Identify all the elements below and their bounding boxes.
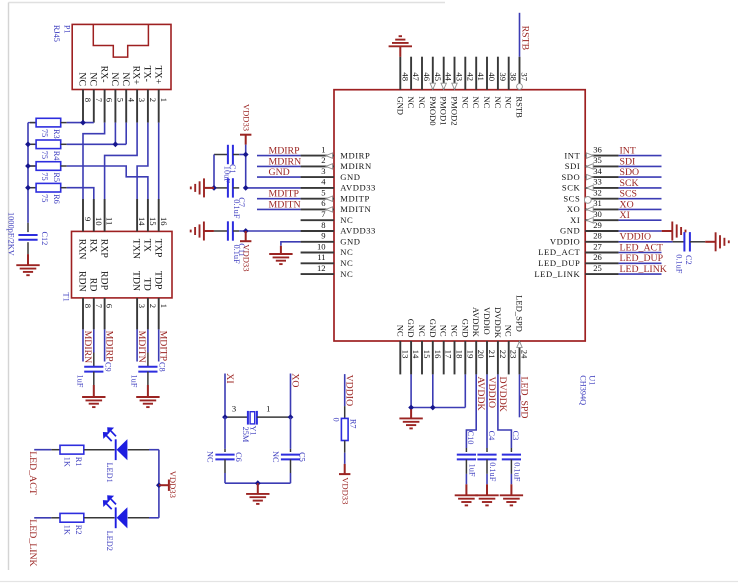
U1 pin 32 (SCS) xyxy=(563,188,618,204)
svg-text:AVDDK: AVDDK xyxy=(471,307,481,338)
svg-text:NC: NC xyxy=(340,258,353,268)
U1 pin 16 (GND) xyxy=(428,319,443,375)
ground right of pin29 xyxy=(662,222,686,241)
svg-text:MDITP: MDITP xyxy=(340,193,370,203)
U1 pin 38 (NC) xyxy=(504,57,519,109)
svg-text:25M: 25M xyxy=(241,427,250,443)
svg-text:NC: NC xyxy=(504,96,514,108)
svg-text:RDP: RDP xyxy=(98,271,109,291)
svg-text:9: 9 xyxy=(83,217,93,221)
svg-text:RDN: RDN xyxy=(77,271,88,292)
svg-text:SCK: SCK xyxy=(562,183,581,193)
svg-text:NC: NC xyxy=(340,247,353,257)
U1 pin 47 (NC) xyxy=(406,57,421,109)
svg-text:6: 6 xyxy=(321,198,326,208)
svg-text:MDITP: MDITP xyxy=(269,189,300,200)
T1 pin 6 xyxy=(105,298,115,330)
wire/net label MDITP (chip left) xyxy=(257,189,301,200)
svg-text:MDIRN: MDIRN xyxy=(82,331,93,364)
wire/net label MDITN xyxy=(136,329,147,362)
svg-text:LED2: LED2 xyxy=(105,531,114,551)
svg-text:NC: NC xyxy=(450,325,460,337)
svg-text:5: 5 xyxy=(321,188,325,198)
svg-text:NC: NC xyxy=(271,451,280,463)
svg-text:RXN: RXN xyxy=(77,239,88,260)
junction: rail/pin16 xyxy=(430,405,436,411)
svg-text:XI: XI xyxy=(570,215,580,225)
ground below crystal xyxy=(246,483,269,504)
svg-text:LED_ACT: LED_ACT xyxy=(620,242,664,253)
svg-text:C4: C4 xyxy=(487,431,496,442)
svg-text:AVDD33: AVDD33 xyxy=(340,226,376,236)
svg-text:12: 12 xyxy=(317,263,326,273)
P1 pin 2 xyxy=(148,90,158,123)
svg-text:NC: NC xyxy=(482,96,492,108)
svg-text:XO: XO xyxy=(620,199,634,210)
U1 pin 21 (VDDIO) xyxy=(482,307,497,374)
svg-text:MDITN: MDITN xyxy=(136,331,147,363)
svg-text:AVDDK: AVDDK xyxy=(475,377,486,411)
wire/net label LED_DUP (chip right) xyxy=(619,253,664,264)
svg-text:SCK: SCK xyxy=(620,178,639,189)
svg-text:GND: GND xyxy=(460,319,470,338)
svg-text:36: 36 xyxy=(593,144,602,154)
svg-text:8: 8 xyxy=(83,98,93,102)
svg-text:C5: C5 xyxy=(297,452,306,462)
svg-text:R5: R5 xyxy=(52,172,61,182)
U1 pin 18 (NC) xyxy=(450,325,465,375)
pin direction arrows (top pins 45,44,43) xyxy=(430,83,457,89)
svg-text:40: 40 xyxy=(487,72,497,81)
svg-text:AVDD33: AVDD33 xyxy=(340,183,376,193)
svg-text:26: 26 xyxy=(593,252,602,262)
net label LED_LINK xyxy=(27,518,51,567)
svg-text:VDDIO: VDDIO xyxy=(486,377,497,409)
svg-text:NC: NC xyxy=(460,96,470,108)
svg-text:XI: XI xyxy=(620,210,630,221)
svg-text:GND: GND xyxy=(395,96,405,115)
U1 pin 20 (AVDDK) xyxy=(471,307,486,374)
wire/net label SCS (chip right) xyxy=(619,189,662,200)
svg-text:13: 13 xyxy=(400,350,410,359)
svg-text:14: 14 xyxy=(411,350,421,359)
svg-text:31: 31 xyxy=(593,198,602,208)
wire/net label VDDIO (pin21) xyxy=(486,374,497,448)
resistor R7 0 xyxy=(332,406,358,464)
U1 pin 48 (GND) xyxy=(395,57,410,115)
U1 pin 44 (PMOD1) xyxy=(439,57,454,126)
capacitor C11 0.1uF xyxy=(214,221,301,264)
svg-text:44: 44 xyxy=(444,72,454,81)
P1 pin 5 xyxy=(115,90,125,123)
U1 pin 8 (AVDD33) xyxy=(301,220,376,236)
P1 pin 4 xyxy=(126,90,136,123)
svg-text:MDIRP: MDIRP xyxy=(340,150,370,160)
svg-text:NC: NC xyxy=(439,325,449,337)
T1 pin 11 xyxy=(105,199,115,231)
svg-text:TX: TX xyxy=(142,239,153,252)
svg-text:MDIRP: MDIRP xyxy=(269,146,301,157)
junction: XO/crystal xyxy=(288,414,294,420)
svg-text:18: 18 xyxy=(455,350,465,359)
junction: P1 pin8 / R3 xyxy=(80,120,86,126)
svg-text:DVDDK: DVDDK xyxy=(497,377,508,412)
svg-text:1: 1 xyxy=(159,98,169,102)
svg-text:C10: C10 xyxy=(466,431,475,445)
U1 pin 24 (LED_SPD) xyxy=(515,295,530,374)
junction: C7/rail xyxy=(243,185,249,191)
svg-text:INT: INT xyxy=(564,150,580,160)
svg-text:LED_LINK: LED_LINK xyxy=(620,264,667,275)
svg-text:PMOD1: PMOD1 xyxy=(439,96,449,125)
svg-text:27: 27 xyxy=(593,241,602,251)
capacitor C2 0.1uF xyxy=(673,232,706,274)
U1 pin 9 (GND) xyxy=(301,231,361,247)
junction: rail/pin14 xyxy=(408,405,414,411)
svg-text:R3: R3 xyxy=(52,129,61,139)
svg-text:XI: XI xyxy=(224,373,235,383)
IC U1 CH394Q body xyxy=(334,90,596,405)
U1 pin 37 (RSTB) xyxy=(515,57,530,118)
svg-text:XO: XO xyxy=(290,373,301,387)
U1 pin 10 (NC) xyxy=(301,241,354,257)
wire: RX- P1.6 to T1.9 xyxy=(83,123,105,199)
svg-text:0.1uF: 0.1uF xyxy=(488,462,497,482)
svg-text:GND: GND xyxy=(428,319,438,338)
svg-text:11: 11 xyxy=(105,217,115,225)
U1 pin 11 (NC) xyxy=(301,252,354,268)
wire/net label VDDIO (pin28) xyxy=(619,232,673,243)
svg-text:PMOD2: PMOD2 xyxy=(450,96,460,125)
capacitor C5 NC xyxy=(271,417,306,483)
svg-text:VDDIO: VDDIO xyxy=(550,237,580,247)
svg-text:28: 28 xyxy=(593,231,602,241)
svg-text:SDO: SDO xyxy=(561,172,580,182)
capacitor C4 0.1uF xyxy=(477,431,497,485)
U1 pin 22 (DVDDK) xyxy=(493,307,508,374)
P1 pin 3 xyxy=(137,90,147,123)
svg-text:TDP: TDP xyxy=(152,271,163,290)
ground left of C11 xyxy=(191,222,214,241)
wire: LED common to VDD33 xyxy=(158,450,160,518)
svg-text:8: 8 xyxy=(83,304,93,308)
svg-text:15: 15 xyxy=(148,217,158,226)
svg-text:30: 30 xyxy=(593,209,602,219)
capacitor C6 NC xyxy=(206,417,244,483)
U1 pin 12 (NC) xyxy=(301,263,354,279)
svg-text:LED_ACT: LED_ACT xyxy=(27,451,38,495)
svg-text:TXP: TXP xyxy=(152,239,163,258)
svg-text:2: 2 xyxy=(321,155,325,165)
T1 pin 16 xyxy=(159,199,169,231)
svg-text:RXP: RXP xyxy=(98,239,109,259)
wire/net label LED_SPD (pin24) xyxy=(519,374,530,418)
svg-text:LED_DUP: LED_DUP xyxy=(620,253,664,264)
svg-text:R2: R2 xyxy=(74,525,83,535)
wire/net label MDIRP (chip left) xyxy=(257,146,301,157)
wire: R6 to T1 pin10 (RX ct) xyxy=(67,188,94,199)
svg-text:14: 14 xyxy=(137,217,147,226)
svg-text:1: 1 xyxy=(159,304,169,308)
svg-text:SDI: SDI xyxy=(565,161,581,171)
wire: left termination rail xyxy=(27,123,29,223)
wire: R3 to P1 pins 7+8 xyxy=(67,122,94,124)
T1 pin 1 xyxy=(159,298,169,330)
svg-text:C2: C2 xyxy=(684,255,693,265)
svg-text:1K: 1K xyxy=(63,457,72,467)
svg-text:SCS: SCS xyxy=(620,189,637,200)
svg-text:MDIRN: MDIRN xyxy=(340,161,372,171)
svg-text:1000pF/2KV: 1000pF/2KV xyxy=(7,212,16,256)
ground below C8 xyxy=(136,385,159,407)
wire: R5 to T1 pin15 (TX ct) xyxy=(67,166,148,199)
svg-text:75: 75 xyxy=(40,172,49,180)
wire/net label SDO (chip right) xyxy=(619,167,662,178)
svg-text:22: 22 xyxy=(498,350,508,359)
U1 pin 6 (MDITN) xyxy=(301,198,372,214)
net label LED_ACT xyxy=(27,450,51,495)
capacitor C1 10uF xyxy=(214,145,246,183)
P1 pin 8 xyxy=(83,90,93,123)
svg-text:5: 5 xyxy=(116,98,126,102)
svg-text:1: 1 xyxy=(321,144,325,154)
U1 pin 45 (PMOD0) xyxy=(428,57,443,126)
svg-text:GND: GND xyxy=(560,226,580,236)
svg-text:35: 35 xyxy=(593,155,602,165)
P1 pin 6 xyxy=(105,90,115,123)
svg-text:RD: RD xyxy=(88,278,99,292)
svg-text:46: 46 xyxy=(422,72,432,81)
wire: TX- P1.2 to T1.14 xyxy=(137,123,148,199)
wire: C1 left rail xyxy=(213,155,215,188)
svg-text:TXN: TXN xyxy=(131,239,142,259)
resistor R2 1K xyxy=(51,513,114,535)
wire/net label XI xyxy=(224,373,235,417)
wire: rail to chip pin4 AVDD33 xyxy=(246,187,301,189)
svg-text:RJ45: RJ45 xyxy=(52,25,61,42)
power port VDD33 (R7) xyxy=(339,464,351,505)
svg-text:VDD33: VDD33 xyxy=(341,477,351,504)
capacitor C9 1uF xyxy=(76,329,113,387)
svg-text:SCS: SCS xyxy=(563,193,580,203)
svg-text:2: 2 xyxy=(148,304,158,308)
U1 pin 42 (NC) xyxy=(460,57,475,109)
wire/net label SCK (chip right) xyxy=(619,178,662,189)
junction: rail/R4 xyxy=(25,141,31,147)
svg-text:VDDIO: VDDIO xyxy=(620,232,652,243)
svg-text:VDD33: VDD33 xyxy=(168,471,178,498)
svg-text:GND: GND xyxy=(340,237,360,247)
svg-text:RX: RX xyxy=(88,239,99,253)
ground below C4 xyxy=(475,484,498,505)
svg-text:19: 19 xyxy=(465,350,475,359)
junction: XI/crystal xyxy=(222,414,228,420)
wire/net label XO (chip right) xyxy=(619,199,662,210)
U1 pin 3 (GND) xyxy=(301,166,361,182)
T1 pin 8 xyxy=(83,298,93,330)
ground above chip pin48 xyxy=(389,36,412,57)
T1 pin 10 xyxy=(94,199,104,231)
LED LED1 xyxy=(103,427,159,483)
wire/net label DVDDK (pin22) xyxy=(497,374,512,448)
U1 pin 29 (GND) xyxy=(560,220,619,236)
svg-text:TDN: TDN xyxy=(131,271,142,291)
transformer T1 xyxy=(62,231,173,301)
svg-text:C12: C12 xyxy=(40,232,49,246)
ground left of C7 xyxy=(191,178,214,197)
U1 pin 30 (XI) xyxy=(570,209,618,225)
svg-text:75: 75 xyxy=(40,129,49,137)
svg-text:45: 45 xyxy=(433,72,443,81)
svg-text:37: 37 xyxy=(520,72,530,81)
svg-text:NC: NC xyxy=(504,325,514,337)
svg-text:4: 4 xyxy=(126,98,136,103)
svg-text:GND: GND xyxy=(340,172,360,182)
U1 pin 13 (NC) xyxy=(395,325,410,375)
svg-text:0.1uF: 0.1uF xyxy=(232,245,241,265)
svg-text:NC: NC xyxy=(88,72,99,86)
svg-text:TD: TD xyxy=(142,278,153,291)
svg-text:9: 9 xyxy=(321,231,325,241)
svg-text:P1: P1 xyxy=(63,25,72,34)
power port VDD33 (C1) xyxy=(240,104,252,145)
svg-text:RX-: RX- xyxy=(98,66,109,83)
svg-text:8: 8 xyxy=(321,220,325,230)
svg-text:LED_ACT: LED_ACT xyxy=(538,247,580,257)
junction: rail/R5 xyxy=(25,163,31,169)
svg-text:LED_SPD: LED_SPD xyxy=(515,295,525,332)
svg-text:NC: NC xyxy=(471,96,481,108)
RSTB active-low bubble pin37 xyxy=(517,84,523,90)
U1 pin 5 (MDITP) xyxy=(301,188,370,204)
wire: R4 to P1 pins 4+5 xyxy=(67,123,127,145)
capacitor C10 1uF xyxy=(457,431,477,485)
svg-text:T1: T1 xyxy=(62,293,71,302)
junction: VDD33 tap xyxy=(156,482,162,488)
svg-text:16: 16 xyxy=(159,217,169,226)
resistor R4 75 xyxy=(28,140,67,161)
svg-text:LED_LINK: LED_LINK xyxy=(27,519,38,566)
svg-text:LED1: LED1 xyxy=(105,463,114,483)
svg-text:MDIRP: MDIRP xyxy=(104,331,115,363)
P1 pin 7 xyxy=(94,90,104,123)
resistor R5 75 xyxy=(28,162,67,182)
svg-text:23: 23 xyxy=(509,350,519,359)
svg-text:SDI: SDI xyxy=(620,156,636,167)
svg-text:25: 25 xyxy=(593,263,602,273)
T1 pin 14 xyxy=(137,199,147,231)
svg-text:XO: XO xyxy=(567,204,581,214)
U1 pin 33 (SCK) xyxy=(562,177,619,193)
svg-text:3: 3 xyxy=(321,166,325,176)
svg-text:NC: NC xyxy=(109,72,120,86)
U1 pin 23 (NC) xyxy=(504,325,519,375)
U1 pin 7 (NC) xyxy=(301,209,354,225)
svg-text:GND: GND xyxy=(269,167,290,178)
P1 pin 1 xyxy=(159,90,169,123)
svg-text:R4: R4 xyxy=(52,151,61,162)
svg-text:MDITP: MDITP xyxy=(158,331,169,362)
svg-text:NC: NC xyxy=(417,96,427,108)
wire/net label MDITP xyxy=(158,329,169,361)
svg-text:R1: R1 xyxy=(74,457,83,467)
svg-text:VDD33: VDD33 xyxy=(242,104,252,131)
svg-text:21: 21 xyxy=(487,350,497,359)
U1 pin 34 (SDO) xyxy=(561,166,618,182)
svg-text:20: 20 xyxy=(476,350,486,359)
U1 pin 28 (VDDIO) xyxy=(550,231,619,247)
svg-text:NC: NC xyxy=(406,96,416,108)
svg-text:NC: NC xyxy=(120,72,131,86)
U1 pin 17 (NC) xyxy=(439,325,454,375)
wire/net label INT (chip right) xyxy=(619,146,662,157)
wire: TX+ P1.1 to T1.16 xyxy=(158,123,160,199)
pin direction arrow (bottom pin 24) xyxy=(517,341,522,347)
svg-text:10: 10 xyxy=(94,217,104,226)
wire/net label MDIRN (chip left) xyxy=(257,156,301,167)
svg-text:MDITN: MDITN xyxy=(269,199,301,210)
ground below C10 xyxy=(455,484,478,505)
svg-text:3: 3 xyxy=(137,98,147,102)
wire/net label SDI (chip right) xyxy=(619,156,662,167)
wire: pin29 GND to ground xyxy=(619,230,662,232)
svg-text:7: 7 xyxy=(94,304,104,309)
power port VDD33 (C11) xyxy=(240,231,252,272)
U1 pin 1 (MDIRP) xyxy=(301,144,371,160)
svg-text:LED_DUP: LED_DUP xyxy=(538,258,580,268)
svg-text:17: 17 xyxy=(444,350,454,359)
svg-text:PMOD0: PMOD0 xyxy=(428,96,438,125)
wire/net label MDITN (chip left) xyxy=(257,199,301,210)
svg-text:1uF: 1uF xyxy=(467,464,476,477)
svg-text:R6: R6 xyxy=(52,194,61,204)
svg-text:1K: 1K xyxy=(63,525,72,535)
U1 pin 25 (LED_LINK) xyxy=(534,263,618,279)
U1 pin 41 (NC) xyxy=(471,57,486,109)
U1 pin 43 (PMOD2) xyxy=(450,57,465,126)
U1 pin 27 (LED_ACT) xyxy=(538,241,618,257)
svg-text:48: 48 xyxy=(400,72,410,81)
wire: chip pin9 GND xyxy=(281,242,301,246)
svg-text:RX+: RX+ xyxy=(131,66,142,86)
T1 pin 9 xyxy=(83,199,93,231)
svg-text:NC: NC xyxy=(340,215,353,225)
svg-text:15: 15 xyxy=(422,350,432,359)
svg-text:3: 3 xyxy=(232,404,236,414)
capacitor C3 0.1uF xyxy=(502,431,522,485)
svg-text:NC: NC xyxy=(493,96,503,108)
svg-text:1: 1 xyxy=(266,404,270,414)
wire/net label MDIRN xyxy=(82,329,93,363)
connector P1 RJ45 xyxy=(52,24,171,89)
svg-text:38: 38 xyxy=(509,72,519,81)
U1 pin 31 (XO) xyxy=(567,198,619,214)
wire: crystal ground rail xyxy=(225,482,291,484)
svg-text:0.1uF: 0.1uF xyxy=(513,462,522,482)
resistor R3 75 xyxy=(28,118,67,138)
wire/net label XO xyxy=(290,373,301,417)
U1 pin 46 (NC) xyxy=(417,57,432,109)
svg-text:MDIRN: MDIRN xyxy=(269,156,302,167)
svg-text:1uF: 1uF xyxy=(130,375,139,388)
resistor R1 1K xyxy=(51,445,114,467)
ground (chip pin9) xyxy=(269,246,292,264)
resistor R6 75 xyxy=(28,183,67,203)
U1 pin 36 (INT) xyxy=(564,144,618,160)
U1 pin 15 (NC) xyxy=(417,325,432,375)
svg-text:10: 10 xyxy=(317,241,326,251)
power port VDD33 (LEDs) xyxy=(159,471,178,498)
